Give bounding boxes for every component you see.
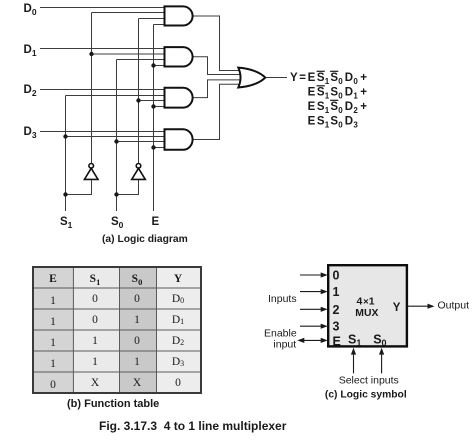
svg-text:Y: Y — [174, 273, 183, 285]
inverter U1 triangle — [84, 168, 98, 179]
wire S0bar vertical net — [138, 19, 140, 164]
table function-table column S0 background — [120, 267, 157, 393]
svg-text:1: 1 — [50, 295, 56, 307]
wire E to gate1 input — [154, 24, 165, 26]
arrowhead input 2 — [321, 307, 328, 312]
node E junction to gate2 — [151, 63, 155, 67]
wire select S1 arrow — [353, 352, 355, 373]
wire S0 to gate2 input — [117, 59, 165, 61]
svg-text:E: E — [333, 334, 341, 348]
svg-text:(c) Logic symbol: (c) Logic symbol — [325, 390, 407, 401]
wire S1 vertical net — [65, 96, 67, 212]
svg-text:Select inputs: Select inputs — [339, 375, 399, 387]
wire S1bar to gate1 input — [92, 12, 165, 14]
svg-text:0: 0 — [333, 269, 340, 283]
svg-text:D3: D3 — [24, 126, 37, 140]
svg-text:0: 0 — [134, 293, 140, 305]
arrowhead input 3 — [321, 324, 328, 329]
svg-text:ESSD: ESSD — [308, 116, 353, 128]
wire input 0 arrow — [300, 274, 323, 276]
wire gate2 output to OR input — [193, 57, 241, 75]
svg-text:0: 0 — [50, 379, 56, 391]
svg-text:S0: S0 — [111, 216, 124, 230]
svg-text:1: 1 — [50, 337, 56, 349]
node S1bar junction to gate2 — [89, 52, 93, 56]
table function-table column Y background — [157, 267, 202, 393]
svg-text:MUX: MUX — [355, 308, 378, 319]
svg-text:1: 1 — [134, 314, 140, 326]
arrowhead select S1 — [351, 348, 356, 355]
arrowhead select S0 — [379, 348, 384, 355]
arrowhead enable left — [297, 338, 304, 343]
svg-text:(b) Function table: (b) Function table — [67, 398, 159, 410]
svg-text:input: input — [273, 338, 296, 350]
wire D1 input line — [40, 48, 165, 50]
inverter U1 bubble — [89, 164, 94, 169]
svg-text:Output: Output — [438, 299, 470, 311]
wire D3 input line — [40, 131, 165, 133]
wire select S0 arrow — [381, 352, 383, 373]
and-gate G2 — [165, 47, 193, 66]
svg-text:1: 1 — [134, 356, 140, 368]
wire gate4 output to OR input — [193, 84, 240, 139]
wire S0bar to gate3 input — [139, 100, 165, 102]
and-gate G3 — [165, 88, 193, 108]
wire gate3 output to OR input — [193, 80, 241, 98]
svg-text:0: 0 — [175, 377, 181, 389]
arrowhead output — [428, 304, 435, 309]
svg-text:1: 1 — [50, 358, 56, 370]
arrowhead input 1 — [321, 289, 328, 294]
wire D0 input line — [40, 7, 165, 9]
svg-text:D1: D1 — [24, 44, 37, 58]
svg-text:E: E — [152, 216, 160, 228]
svg-text:Y: Y — [393, 302, 401, 314]
wire S0 to gate4 input — [117, 141, 165, 143]
table function-table outer border — [33, 267, 201, 393]
svg-text:4×1: 4×1 — [357, 296, 375, 308]
node S0 junction to inverter U2 — [114, 192, 118, 196]
node S0 junction to gate4 — [114, 139, 118, 143]
table function-table column E background — [33, 267, 73, 393]
svg-text:0: 0 — [92, 293, 98, 305]
svg-text:S1: S1 — [60, 216, 73, 230]
wire enable arrow — [302, 339, 323, 341]
svg-text:X: X — [91, 377, 100, 389]
node S0bar junction to gate3 — [136, 98, 140, 102]
wire S0 to inverter U2 input — [117, 179, 139, 194]
inverter U2 triangle — [132, 168, 146, 179]
svg-text:3: 3 — [333, 320, 340, 334]
and-gate G4 — [165, 129, 193, 150]
wire input 1 arrow — [300, 291, 323, 293]
wire E vertical net — [153, 25, 155, 212]
wire D2 input line — [40, 89, 165, 91]
inverter U2 bubble — [136, 164, 141, 169]
node E junction to gate4 — [151, 145, 155, 149]
table function-table column S1 background — [73, 267, 119, 393]
wire E to gate2 input — [154, 65, 165, 67]
svg-text:E: E — [49, 273, 57, 285]
node S1 junction to gate4 — [63, 134, 67, 138]
wire output arrow — [407, 305, 430, 307]
wire E to gate3 input — [154, 106, 165, 108]
wire input 3 arrow — [300, 325, 323, 327]
wire S1bar vertical net — [91, 13, 93, 164]
and-gate G1 — [165, 6, 193, 25]
wire S0bar to gate1 input — [139, 18, 165, 20]
svg-text:D0: D0 — [24, 3, 37, 17]
wire S1 to gate4 input — [66, 136, 165, 138]
wire S1bar to gate2 input — [92, 53, 165, 55]
svg-text:Fig. 3.17.3 4 to 1 line multi: Fig. 3.17.3 4 to 1 line multiplexer — [99, 419, 287, 433]
or-gate G5 — [238, 68, 265, 88]
svg-text:D2: D2 — [24, 84, 37, 98]
wire S1 to inverter U1 input — [66, 179, 92, 194]
wire gate1 output to OR input — [193, 16, 240, 71]
svg-text:0: 0 — [92, 314, 98, 326]
svg-text:1: 1 — [50, 316, 56, 328]
table function-table grid lines — [33, 267, 201, 393]
svg-text:1: 1 — [92, 356, 98, 368]
node S1 junction to inverter U1 — [63, 192, 67, 196]
svg-text:2: 2 — [333, 303, 340, 317]
arrowhead input 0 — [321, 272, 328, 277]
wire S0 vertical net — [116, 60, 118, 212]
svg-text:1: 1 — [333, 285, 340, 299]
arrowhead enable right — [321, 338, 328, 343]
svg-text:1: 1 — [92, 335, 98, 347]
svg-text:Inputs: Inputs — [268, 293, 297, 305]
svg-text:0: 0 — [134, 335, 140, 347]
wire Y output of OR gate — [265, 77, 287, 79]
svg-text:(a) Logic diagram: (a) Logic diagram — [102, 234, 188, 245]
wire E to gate4 input — [154, 147, 165, 149]
wire input 2 arrow — [300, 308, 323, 310]
svg-text:X: X — [133, 377, 142, 389]
wire S1 to gate3 input — [66, 95, 165, 97]
mux U3 box — [328, 265, 407, 346]
node E junction to gate3 — [151, 104, 155, 108]
